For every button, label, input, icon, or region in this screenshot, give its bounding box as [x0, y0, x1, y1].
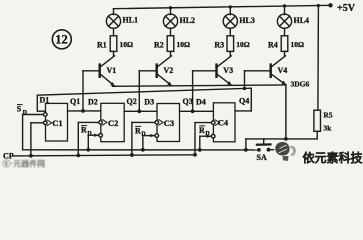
svg-text:R4: R4	[268, 40, 278, 49]
svg-text:R2: R2	[154, 40, 164, 49]
wire SA right stub	[269, 149, 274, 151]
flip-flop C2	[101, 103, 124, 141]
svg-text:D: D	[87, 131, 92, 137]
wire L1 reset upper line	[246, 138, 317, 140]
wire R4 to V4 collector	[284, 51, 286, 56]
wire R2 to V2 collector	[170, 51, 172, 56]
wire lamp4 to R4	[284, 28, 286, 36]
svg-text:Ⓔ·元器件网: Ⓔ·元器件网	[3, 158, 46, 168]
node L1 emitter junction	[284, 137, 288, 141]
switch SA stem	[263, 139, 265, 144]
wire Q4 output	[235, 110, 251, 112]
wire common emitter rail	[113, 85, 286, 86]
switch SA left contact	[257, 148, 261, 152]
pin C2 RD bubble	[99, 133, 103, 137]
svg-text:10Ω: 10Ω	[291, 40, 305, 49]
svg-text:V2: V2	[164, 66, 174, 75]
pin C1 clock triangle	[47, 120, 52, 126]
transistor V3	[217, 56, 232, 86]
wire lamp3 to R3	[229, 28, 231, 36]
pin C3 clock bubble	[155, 121, 159, 125]
node +5V terminal	[328, 3, 332, 7]
svg-text:S: S	[17, 105, 22, 114]
svg-text:3DG6: 3DG6	[291, 80, 310, 89]
wire lamp2 to R2	[170, 28, 172, 36]
label S_D bar	[17, 105, 28, 117]
resistor R3	[227, 36, 234, 52]
node reset line C2 RD	[86, 148, 90, 152]
pin C1 clock bubble	[44, 121, 48, 125]
resistor R4	[281, 36, 288, 52]
svg-text:10Ω: 10Ω	[177, 40, 191, 49]
wire V4 base	[245, 70, 271, 72]
svg-text:3k: 3k	[323, 124, 332, 133]
wire lamp1 to R1	[113, 28, 115, 36]
lamp HL3	[223, 14, 237, 28]
pin C3 RD bubble	[155, 134, 159, 138]
wire C2 RD down to reset line	[87, 135, 89, 150]
wire CP line B	[13, 155, 195, 156]
svg-text:R: R	[81, 126, 87, 135]
svg-text:SA: SA	[257, 153, 267, 162]
resistor R1	[110, 36, 117, 52]
wire C3 clock down to CP line	[131, 122, 133, 155]
wire Q4 feedback to D1	[37, 88, 251, 111]
wire V3 base to Q3 node	[192, 71, 194, 112]
label C4 R_D bar	[199, 126, 210, 137]
svg-text:D: D	[141, 132, 146, 138]
wire S_D down to reset line	[22, 115, 24, 150]
wire C4 RD down to reset line	[199, 136, 201, 150]
pin C2 clock triangle	[103, 120, 108, 126]
wire Q4 feedback riser	[250, 88, 252, 111]
wire C4 clock input	[195, 122, 211, 124]
wire C3 clock input	[132, 121, 155, 123]
svg-text:D1: D1	[40, 96, 50, 105]
svg-text:R: R	[199, 126, 205, 135]
switch SA right contact	[267, 148, 271, 152]
pin C4 RD bubble	[211, 134, 215, 138]
svg-text:D: D	[23, 110, 28, 116]
node Q2 junction	[137, 109, 141, 113]
svg-text:R3: R3	[214, 40, 224, 49]
pin C3 clock triangle	[159, 120, 164, 126]
label C3 R_D bar	[135, 126, 146, 137]
node reset line C3 RD	[141, 148, 145, 152]
transistor V4	[271, 56, 286, 85]
node top rail junction HL2	[169, 6, 172, 9]
wire lamp column 2 upper	[170, 8, 172, 15]
wire V1 base to Q1 node	[82, 71, 84, 111]
lamp HL4	[277, 14, 291, 28]
flip-flop C3	[157, 104, 180, 142]
svg-text:V4: V4	[278, 66, 288, 75]
wire C1 clock down to CP line	[30, 123, 32, 156]
node top rail junction right rail	[317, 4, 320, 7]
svg-text:C4: C4	[218, 118, 229, 128]
svg-text:R5: R5	[323, 111, 332, 120]
svg-text:Q2: Q2	[127, 97, 137, 106]
svg-text:HL1: HL1	[123, 16, 139, 25]
svg-text:C2: C2	[108, 118, 118, 128]
svg-text:C3: C3	[164, 118, 174, 128]
node CP line C3 clock	[130, 153, 134, 157]
wire C3 RD input	[143, 135, 155, 137]
wire C2 clock down to CP line	[77, 122, 79, 155]
lamp HL1	[106, 14, 120, 28]
svg-text:R1: R1	[97, 40, 107, 49]
transistor V2	[157, 56, 172, 86]
flip-flop C4	[213, 103, 235, 142]
circled problem number 12	[52, 30, 71, 49]
svg-text:10Ω: 10Ω	[120, 40, 134, 49]
wire Q1 to D2	[68, 110, 101, 112]
node CP line C1 clock	[29, 154, 33, 158]
wire R3 to V3 collector	[229, 51, 231, 56]
wire V1 base	[83, 70, 100, 72]
node reset line C4 RD	[198, 148, 202, 152]
wire Q3 to D4	[180, 110, 214, 112]
pin C4 clock bubble	[211, 121, 215, 125]
svg-text:Q4: Q4	[239, 97, 249, 106]
label C2 R_D bar	[81, 126, 92, 137]
node top rail junction HL4	[283, 4, 286, 7]
node top rail junction HL3	[229, 5, 232, 8]
wire C1 clock input	[31, 122, 44, 124]
wire C2 clock input	[78, 121, 98, 123]
svg-text:D3: D3	[144, 97, 154, 106]
pin C4 clock triangle	[215, 120, 220, 126]
svg-text:依元素科技: 依元素科技	[303, 150, 363, 165]
wire Q2 to D3	[124, 110, 157, 112]
transistor V1	[100, 56, 115, 87]
wire lamp column 1 upper	[113, 9, 115, 15]
resistor R2	[167, 36, 174, 52]
svg-text:R: R	[135, 126, 141, 135]
wire R5 to L1	[316, 131, 318, 139]
svg-text:Q3: Q3	[183, 97, 193, 106]
pin C2 RD arrowhead	[94, 134, 99, 137]
pin C4 RD arrowhead	[207, 135, 212, 138]
svg-text:+5V: +5V	[337, 3, 356, 14]
wire right rail from +5V	[317, 6, 320, 111]
svg-text:HL3: HL3	[239, 16, 255, 25]
svg-text:HL4: HL4	[294, 16, 310, 25]
svg-text:D2: D2	[88, 97, 98, 106]
svg-text:C1: C1	[52, 118, 62, 128]
svg-text:D4: D4	[196, 97, 206, 106]
wire R1 to V1 collector	[113, 51, 115, 56]
svg-text:V3: V3	[223, 66, 233, 75]
node Q3 junction	[191, 109, 195, 113]
node CP line C2 clock	[76, 154, 80, 158]
wire lamp column 4 upper	[284, 6, 286, 15]
wire C4 RD input	[200, 135, 212, 137]
pin C2 clock bubble	[99, 121, 103, 125]
flip-flop C1	[46, 103, 68, 141]
svg-text:D: D	[205, 131, 210, 137]
wire reset riser to L1	[245, 139, 247, 150]
watermark logo dark glyph	[275, 142, 296, 161]
wire emitter rail down to reset line	[285, 85, 287, 139]
svg-text:12: 12	[55, 33, 67, 47]
wire C2 RD input	[88, 134, 98, 136]
svg-text:10Ω: 10Ω	[236, 40, 250, 49]
lamp HL2	[163, 14, 177, 28]
node reset line riser junction	[244, 148, 248, 152]
switch SA bar	[257, 143, 271, 146]
wire +5V top rail	[114, 5, 331, 8]
wire V2 base	[139, 70, 156, 72]
svg-text:HL2: HL2	[180, 16, 196, 25]
wire V3 base	[193, 70, 217, 72]
wire C3 RD down to reset line	[142, 136, 144, 150]
wire reset line A	[23, 149, 259, 151]
svg-text:V1: V1	[107, 66, 117, 75]
wire S_D input	[23, 114, 44, 116]
node CP line C4 clock	[193, 153, 197, 157]
node Q1 junction	[81, 109, 85, 113]
wire V2 base to Q2 node	[138, 71, 140, 112]
pin C1 SD bubble	[44, 113, 48, 117]
wire C4 clock down to CP line	[194, 123, 196, 155]
svg-text:Q1: Q1	[70, 97, 80, 106]
pin C3 RD arrowhead	[150, 134, 155, 137]
wire V4 base to Q4 node	[244, 71, 246, 89]
wire lamp column 3 upper	[229, 7, 231, 15]
resistor R5	[314, 110, 321, 131]
